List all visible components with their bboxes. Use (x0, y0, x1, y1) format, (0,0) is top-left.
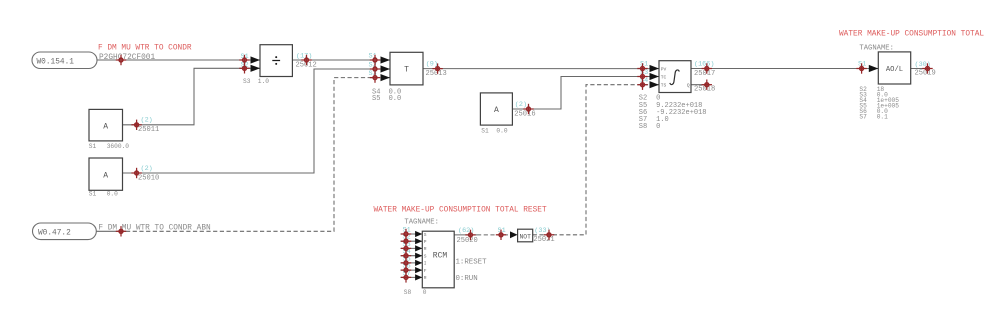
svg-text:W0.47.2: W0.47.2 (38, 229, 71, 237)
svg-text:25016: 25016 (514, 110, 535, 118)
svg-text:25019: 25019 (915, 70, 936, 78)
svg-text:25020: 25020 (457, 237, 478, 245)
svg-text:S: S (424, 232, 427, 238)
svg-text:1.0: 1.0 (258, 78, 269, 85)
wire W0.47.2 stub (96, 230, 126, 232)
svg-text:R: R (424, 246, 427, 252)
cross T S3 (370, 72, 380, 82)
cross RCM out (465, 230, 475, 240)
svg-text:P2GHC72CF001: P2GHC72CF001 (99, 54, 155, 62)
svg-text:S1: S1 (89, 143, 97, 150)
svg-text:F DM MU WTR TO CONDR ABN: F DM MU WTR TO CONDR ABN (98, 225, 211, 233)
svg-text:NOT: NOT (520, 234, 532, 241)
wire T out to integrator S1 (423, 68, 659, 70)
svg-text:T: T (404, 65, 409, 74)
svg-text:AO/L: AO/L (886, 66, 903, 74)
block A 25016 (480, 93, 512, 125)
svg-text:(2): (2) (141, 117, 153, 125)
svg-text:0: 0 (656, 123, 660, 131)
svg-text:25017: 25017 (694, 70, 715, 78)
svg-text:TAGNAME:: TAGNAME: (859, 44, 894, 52)
svg-text:Q: Q (687, 82, 690, 88)
svg-text:I: I (424, 261, 427, 267)
svg-text:0.0: 0.0 (107, 190, 118, 197)
wire divider out to T S1 (292, 59, 390, 61)
svg-text:25010: 25010 (138, 174, 159, 182)
wire RCM out stub (454, 234, 477, 236)
svg-text:25011: 25011 (138, 126, 159, 134)
cross NOT S1 (496, 230, 506, 240)
wire integrator Q stub (691, 84, 711, 86)
svg-text:0.1: 0.1 (877, 114, 888, 121)
divider block (260, 45, 292, 77)
svg-text:S8: S8 (404, 289, 412, 296)
RCM input arrow S5 (415, 260, 422, 266)
cross T out (432, 63, 442, 73)
cross divider S2 (239, 63, 249, 73)
svg-text:A: A (494, 106, 499, 115)
integrator input arrow S1 (650, 65, 660, 72)
block A 25011 (89, 109, 123, 140)
block RCM 25020 (422, 231, 454, 288)
svg-text:(2): (2) (515, 101, 527, 109)
RCM input arrow S3 (415, 245, 422, 251)
svg-text:WATER MAKE-UP CONSUMPTION TOTA: WATER MAKE-UP CONSUMPTION TOTAL RESET (374, 207, 547, 215)
svg-text:F: F (424, 268, 427, 274)
T input arrow S2 (381, 65, 391, 72)
svg-text:S1: S1 (89, 190, 97, 197)
svg-text:A: A (103, 171, 108, 180)
wire dashed RCM out to NOT S1 (477, 234, 511, 236)
svg-text:WATER MAKE-UP CONSUMPTION TOTA: WATER MAKE-UP CONSUMPTION TOTAL (839, 30, 984, 38)
wire dashed NOT out to integrator S4 (533, 85, 659, 235)
cross markers (116, 55, 933, 283)
cross divider S1 (239, 55, 249, 65)
cross AO/L out (922, 63, 932, 73)
cross integrator S1 (637, 63, 647, 73)
svg-text:3600.0: 3600.0 (107, 143, 130, 150)
block AO/L 25019 (878, 52, 910, 84)
svg-text:(166): (166) (694, 61, 714, 69)
svg-text:1:RESET: 1:RESET (456, 258, 488, 266)
svg-text:PV: PV (661, 66, 667, 72)
cross divider out (301, 55, 311, 65)
cross integrator S3 (637, 71, 647, 81)
svg-text:S7: S7 (859, 114, 867, 121)
divider input arrow S1 (251, 56, 261, 63)
input oval W0.154.1 (32, 52, 97, 69)
cross RCM S3 (401, 243, 411, 253)
block A 25010 (89, 158, 123, 190)
svg-text:25013: 25013 (426, 70, 447, 78)
divider input arrow S2 (251, 65, 261, 72)
input oval W0.47.2 (33, 223, 97, 240)
svg-text:(2): (2) (141, 165, 153, 173)
wire A 25016 out to integrator S3 (512, 77, 659, 110)
svg-text:0: 0 (423, 289, 427, 296)
cross A 25016 out (523, 104, 533, 114)
RCM input arrow S4 (415, 253, 422, 259)
svg-text:S: S (424, 254, 427, 260)
RCM input stubs (401, 234, 423, 277)
AO/L input arrow S1 (869, 65, 879, 72)
svg-text:W0.154.1: W0.154.1 (37, 58, 75, 66)
cross AO/L S1 (856, 63, 866, 73)
svg-text:S5: S5 (372, 95, 380, 103)
svg-text:F DM MU WTR TO CONDR: F DM MU WTR TO CONDR (98, 45, 192, 53)
svg-text:A: A (103, 122, 108, 131)
cross T S2 (370, 64, 380, 74)
cross on W0.154.1 wire (116, 55, 126, 65)
svg-text:R: R (424, 275, 427, 281)
wire A 25011 out to divider S2 (123, 68, 261, 125)
cross on W0.47.2 wire (116, 226, 126, 236)
RCM input arrow S7 (415, 274, 422, 280)
svg-text:S3: S3 (243, 78, 251, 85)
integrator input arrow S3 (650, 73, 660, 80)
cross integrator out (702, 63, 712, 73)
cross integrator S4 (637, 80, 647, 90)
integrator input arrow S4 (650, 81, 660, 88)
svg-text:S8: S8 (639, 123, 647, 131)
svg-text:25021: 25021 (533, 236, 554, 244)
cross A 25010 out (131, 168, 141, 178)
svg-text:TS: TS (661, 82, 667, 88)
svg-text:P: P (424, 239, 427, 245)
cross RCM S4 (401, 251, 411, 261)
T input arrow S3 (381, 74, 391, 81)
wire dashed W0.47.2 to T S3 (126, 78, 390, 232)
wire A 25010 out to T S2 (123, 69, 391, 173)
RCM input arrow S2 (415, 238, 422, 244)
cross integrator Q out (702, 80, 712, 90)
svg-text:RCM: RCM (433, 251, 448, 260)
cross NOT out (544, 230, 554, 240)
block NOT 25021 (518, 229, 533, 242)
svg-text:S1: S1 (481, 127, 489, 134)
cross A 25011 out (131, 120, 141, 130)
RCM input arrow S1 (415, 231, 422, 237)
cross RCM S7 (401, 272, 411, 282)
wire AO/L out stub (911, 68, 933, 70)
NOT input arrow S1 (510, 231, 518, 238)
svg-text:TC: TC (661, 74, 667, 80)
cross T S1 (370, 55, 380, 65)
integrator block 25017 (659, 61, 691, 93)
cross RCM S1 (401, 229, 411, 239)
svg-text:TAGNAME:: TAGNAME: (404, 219, 439, 227)
svg-text:25018: 25018 (694, 85, 715, 93)
svg-text:0:RUN: 0:RUN (456, 275, 478, 283)
cross RCM S6 (401, 265, 411, 275)
cross RCM S5 (401, 258, 411, 268)
cross RCM S2 (401, 236, 411, 246)
T input arrow S1 (381, 56, 391, 63)
RCM input arrow S6 (415, 267, 422, 273)
block T 25013 (390, 52, 423, 85)
svg-text:0.0: 0.0 (389, 95, 402, 103)
svg-text:0.0: 0.0 (496, 127, 507, 134)
wire W0.154.1 to divider S1 (97, 59, 260, 61)
wire integrator out to AO/L S1 (691, 68, 878, 70)
